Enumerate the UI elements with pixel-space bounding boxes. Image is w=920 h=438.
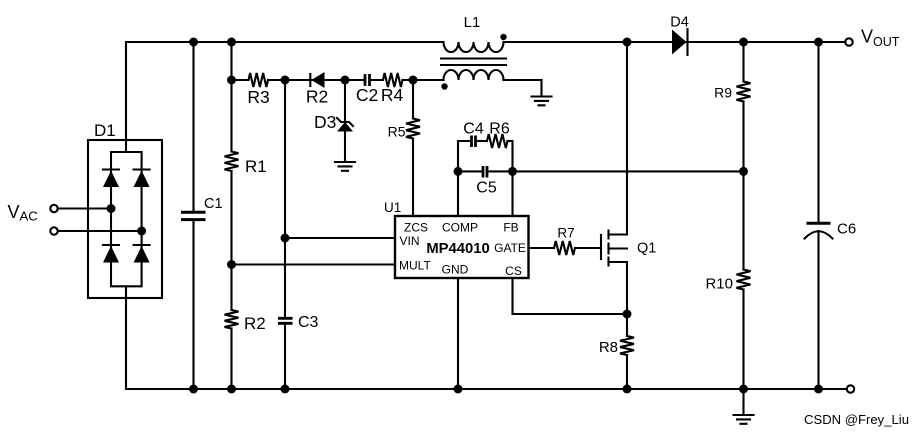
diode D4 xyxy=(672,29,688,55)
svg-text:L1: L1 xyxy=(464,14,481,31)
transistor Q1 MOSFET xyxy=(601,231,627,266)
junction source/CS node xyxy=(623,310,632,319)
transformer L1 secondary winding xyxy=(413,70,542,80)
capacitor C2 xyxy=(345,74,383,86)
pin label GND xyxy=(442,263,469,277)
junction R2 bottom xyxy=(227,385,236,394)
label C2 xyxy=(356,85,378,105)
label VOUT xyxy=(861,27,900,50)
label Q1 xyxy=(637,241,656,257)
junction C6 top xyxy=(814,38,823,47)
svg-text:R2: R2 xyxy=(244,314,266,333)
label D4 xyxy=(670,15,689,31)
wire bottom rail xyxy=(126,388,847,390)
svg-text:FB: FB xyxy=(503,221,518,235)
wire top rail right xyxy=(504,41,846,43)
svg-text:C4: C4 xyxy=(463,121,484,138)
junction GND pin bottom xyxy=(454,385,463,394)
svg-text:D3: D3 xyxy=(314,112,336,132)
phase dot primary xyxy=(500,34,506,40)
label MP44010 xyxy=(426,241,489,257)
pin label ZCS xyxy=(404,221,428,235)
svg-text:D1: D1 xyxy=(94,121,116,140)
wire VIN node to C3 xyxy=(284,238,286,318)
terminal output return xyxy=(847,385,854,392)
diode D1 upper-right xyxy=(134,170,150,188)
wire Q1 source xyxy=(626,262,628,314)
svg-text:C1: C1 xyxy=(204,196,223,212)
zener diode D3 xyxy=(337,80,353,162)
label C4 xyxy=(463,121,484,138)
junction ZCS node xyxy=(409,76,418,85)
label R4 xyxy=(381,85,404,105)
wire bridge negative riser xyxy=(125,286,127,389)
terminal VAC upper xyxy=(50,205,57,212)
ground main xyxy=(734,389,754,424)
svg-text:R1: R1 xyxy=(245,157,267,176)
junction D3 node xyxy=(341,76,350,85)
svg-text:C5: C5 xyxy=(476,180,497,197)
junction R10 bottom xyxy=(739,385,748,394)
label C6 xyxy=(837,221,856,238)
terminal VOUT xyxy=(845,38,852,45)
svg-text:R5: R5 xyxy=(388,124,406,140)
junction C1 top xyxy=(189,38,198,47)
wire Q1 drain xyxy=(626,42,628,235)
resistor R4 xyxy=(383,73,413,87)
label R10 xyxy=(705,276,733,293)
junction bridge AC right xyxy=(137,227,146,236)
wire COMP pin riser xyxy=(457,171,459,216)
wire FB feedback xyxy=(513,170,744,172)
svg-text:C3: C3 xyxy=(298,314,319,331)
label R7 xyxy=(557,226,574,241)
junction Q1 drain top xyxy=(623,38,632,47)
wire VAC lower to bridge xyxy=(58,230,142,232)
bridge rectifier D1 box xyxy=(88,140,162,298)
transformer L1 primary winding xyxy=(444,42,504,52)
junction VIN node xyxy=(281,234,290,243)
resistor R1 xyxy=(225,80,239,265)
pin label CS xyxy=(505,264,522,278)
label R9 xyxy=(714,85,732,101)
wire VIN xyxy=(285,237,395,239)
svg-text:U1: U1 xyxy=(384,200,401,215)
svg-text:CSDN @Frey_Liu: CSDN @Frey_Liu xyxy=(804,412,909,427)
label R2 lower xyxy=(244,314,266,333)
label R1 xyxy=(245,157,267,176)
terminal VAC lower xyxy=(50,227,57,234)
transformer L1 core xyxy=(441,59,506,66)
junction COMP node xyxy=(454,167,463,176)
svg-text:GND: GND xyxy=(442,263,469,277)
watermark CSDN xyxy=(804,412,909,427)
svg-text:VIN: VIN xyxy=(400,234,420,248)
wire VIN riser xyxy=(284,80,286,238)
capacitor C6 xyxy=(805,42,833,389)
wire comp branch risers xyxy=(458,141,513,171)
pin label FB xyxy=(503,221,518,235)
junction C6 bottom xyxy=(814,385,823,394)
junction C3 bottom xyxy=(281,385,290,394)
phase dot secondary xyxy=(441,83,447,89)
svg-text:COMP: COMP xyxy=(442,221,478,235)
label U1 xyxy=(384,200,401,215)
wire VAC upper to bridge xyxy=(58,207,111,209)
diode R2 (D2) xyxy=(285,72,345,88)
resistor R8 xyxy=(620,314,634,389)
svg-text:CS: CS xyxy=(505,264,522,278)
label R8 xyxy=(599,339,618,356)
svg-text:R10: R10 xyxy=(705,276,733,293)
svg-text:R6: R6 xyxy=(489,121,510,138)
junction FB divider node xyxy=(739,167,748,176)
label D1 xyxy=(94,121,116,140)
bridge inner wiring xyxy=(111,152,142,286)
junction R3/D2 node xyxy=(281,76,290,85)
capacitor C5 xyxy=(458,166,513,178)
junction R1 branch top xyxy=(227,38,236,47)
label R2 diode xyxy=(306,87,328,107)
junction bridge AC left xyxy=(107,204,116,213)
label R6 xyxy=(489,121,510,138)
diode D1 upper-left xyxy=(103,170,119,188)
capacitor C4 xyxy=(458,136,487,148)
wire CS pin xyxy=(513,278,628,314)
label R3 xyxy=(247,87,269,107)
wire secondary to ground xyxy=(540,80,542,96)
wire bridge positive riser xyxy=(125,42,127,152)
pin label GATE xyxy=(494,241,526,255)
junction MULT node xyxy=(227,260,236,269)
op-amp U1 MP44010 box xyxy=(395,216,529,278)
label C3 xyxy=(298,314,319,331)
ground D3 xyxy=(335,162,355,171)
pin label COMP xyxy=(442,221,478,235)
label C5 xyxy=(476,180,497,197)
svg-text:ZCS: ZCS xyxy=(404,221,428,235)
wire MULT xyxy=(232,263,396,265)
diode D1 lower-right xyxy=(134,245,150,263)
capacitor C3 xyxy=(278,318,293,389)
svg-text:Q1: Q1 xyxy=(637,241,656,257)
resistor R10 xyxy=(737,171,751,389)
resistor R5 xyxy=(406,80,420,216)
label D3 xyxy=(314,112,336,132)
junction C1 bottom xyxy=(189,385,198,394)
resistor R3 xyxy=(232,73,286,87)
junction R3/R1 node xyxy=(227,76,236,85)
svg-text:VAC: VAC xyxy=(8,202,39,223)
svg-text:R9: R9 xyxy=(714,85,732,101)
svg-text:D4: D4 xyxy=(670,15,689,31)
svg-text:R2: R2 xyxy=(306,87,328,107)
label VAC xyxy=(8,202,39,223)
svg-text:R8: R8 xyxy=(599,339,618,356)
svg-text:R7: R7 xyxy=(557,226,574,241)
junction R8 bottom xyxy=(623,385,632,394)
svg-text:MP44010: MP44010 xyxy=(426,241,489,257)
svg-text:C6: C6 xyxy=(837,221,856,238)
resistor R2 (lower) xyxy=(225,265,239,390)
svg-text:VOUT: VOUT xyxy=(861,27,900,50)
capacitor C1 xyxy=(181,42,206,389)
wire top rail left xyxy=(126,41,444,43)
label C1 xyxy=(204,196,223,212)
junction FB node xyxy=(508,167,517,176)
wire GND pin xyxy=(457,278,459,389)
resistor R7 xyxy=(554,241,601,255)
svg-text:GATE: GATE xyxy=(494,241,526,255)
pin label VIN xyxy=(400,234,420,248)
junction R9 top xyxy=(739,38,748,47)
svg-text:R4: R4 xyxy=(381,85,404,105)
wire GATE pin xyxy=(529,247,555,249)
svg-text:MULT: MULT xyxy=(399,259,431,273)
svg-text:C2: C2 xyxy=(356,85,378,105)
resistor R6 xyxy=(487,134,513,148)
wire FB pin riser xyxy=(511,171,513,216)
svg-text:R3: R3 xyxy=(247,87,269,107)
diode D1 lower-left xyxy=(103,245,119,263)
label R5 xyxy=(388,124,406,140)
pin label MULT xyxy=(399,259,431,273)
resistor R9 xyxy=(737,42,751,171)
ground secondary xyxy=(532,97,552,106)
wire branch to R3 node xyxy=(230,42,232,80)
label L1 xyxy=(464,14,481,31)
